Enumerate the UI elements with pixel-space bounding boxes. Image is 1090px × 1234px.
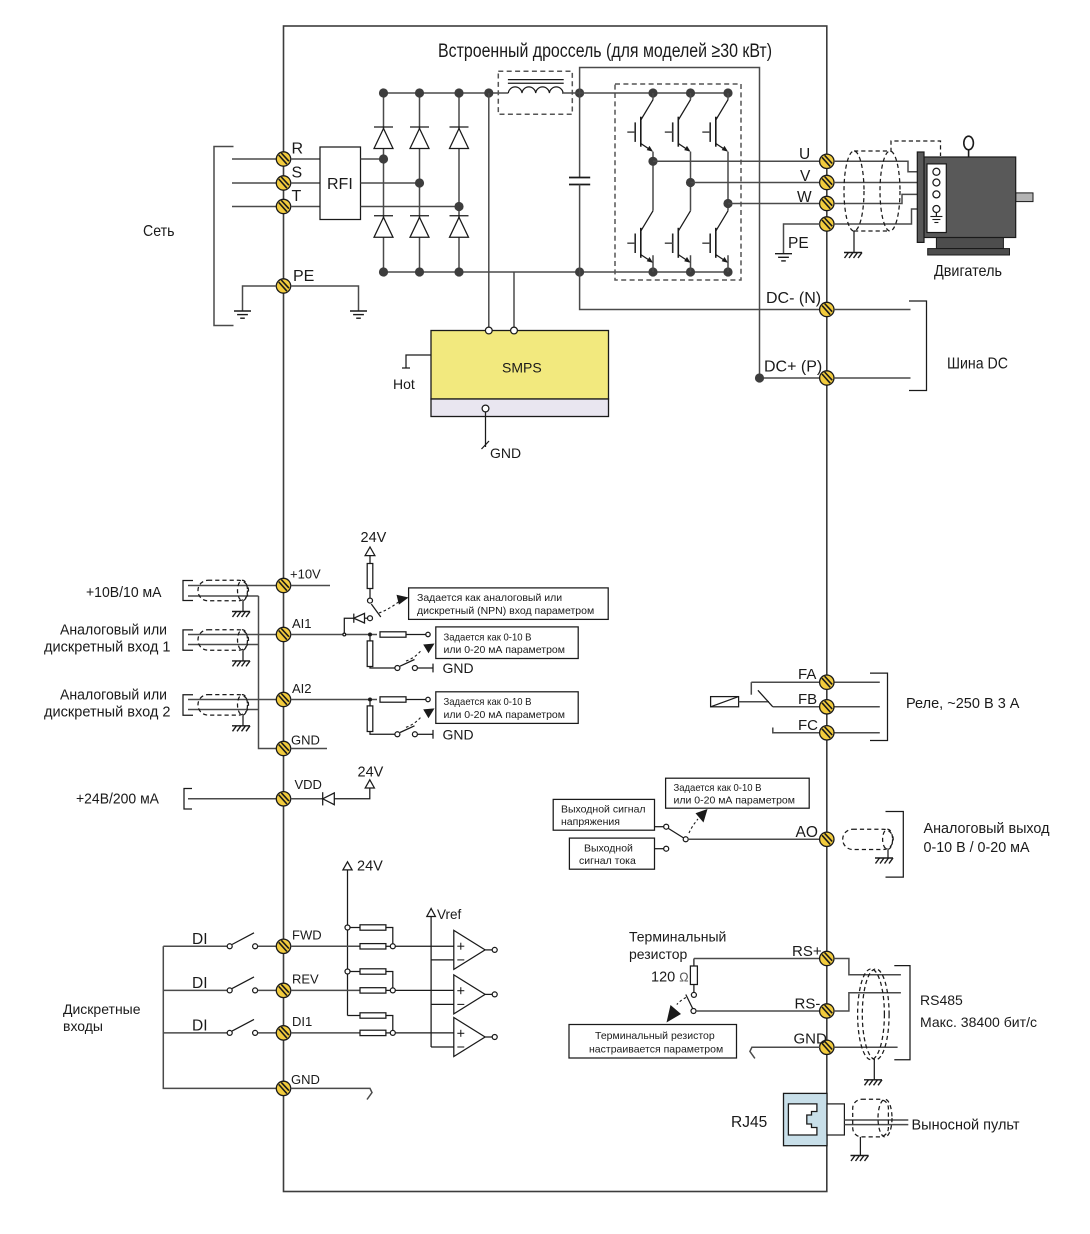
svg-text:FC: FC <box>798 717 818 734</box>
wire RS485 shield to ground <box>873 1060 875 1080</box>
ground (hatched) AI1 cable <box>232 661 250 667</box>
DI1 pull-up resistor <box>348 1013 393 1031</box>
Vref stubs to comparators <box>431 960 454 1047</box>
svg-text:Vref: Vref <box>437 907 462 922</box>
NPN diode branch <box>344 613 372 633</box>
wire current box to switch <box>655 846 669 851</box>
ground (earth) left of PE <box>234 311 251 318</box>
wire DC- stub right <box>834 309 911 311</box>
svg-text:дискретный вход 2: дискретный вход 2 <box>44 704 171 721</box>
svg-text:дискретный (NPN) вход параметр: дискретный (NPN) вход параметром <box>417 605 594 617</box>
svg-text:24V: 24V <box>361 530 387 546</box>
svg-text:Аналоговый выход: Аналоговый выход <box>924 820 1050 837</box>
AO switch arm <box>669 829 684 839</box>
terminal REV <box>276 983 290 997</box>
IGBT column 3 verticals <box>727 93 729 272</box>
switch terminating resistor <box>686 992 697 1013</box>
24V arrow at VDD <box>365 780 374 788</box>
RJ45 cable wires <box>844 1120 908 1125</box>
ground (hatched) RJ45 cable <box>851 1156 869 1162</box>
terminal DI1 <box>276 1026 290 1040</box>
arrow to note 1 <box>397 595 409 605</box>
rectifier column 3 <box>458 93 460 272</box>
ground (earth) PE output <box>775 254 792 261</box>
+10V shielded cable <box>198 580 249 601</box>
+10V cable wires <box>188 585 277 587</box>
svg-text:Задается как 0-10 В: Задается как 0-10 В <box>674 782 762 794</box>
terminal RS+ <box>820 951 834 965</box>
AI1 cable bracket <box>183 630 193 650</box>
wire diode to 24V arrow <box>334 788 370 799</box>
AI2 cable wires <box>188 699 277 701</box>
RJ45 connector <box>784 1093 828 1145</box>
box Выходной сигнал напряжения <box>553 799 654 830</box>
resistor AI2 shunt <box>367 702 394 735</box>
svg-text:RFI: RFI <box>327 176 353 193</box>
wire RFI to rectifier T phase <box>361 206 460 208</box>
wire R input <box>232 158 277 160</box>
switch NPN select <box>368 598 381 617</box>
junction circle FWD <box>390 944 395 949</box>
wire choke to DC+ node <box>562 92 580 94</box>
junction dot DC+ corner <box>755 373 764 382</box>
arrow to note 2 <box>423 644 434 654</box>
24V source at DI <box>343 859 383 1016</box>
svg-text:DI: DI <box>192 1018 208 1035</box>
diode D1 <box>374 127 393 149</box>
wire RS- into cable <box>834 993 901 1011</box>
AO switch common circle <box>683 837 688 842</box>
wire AO shield to ground <box>887 850 889 859</box>
svg-text:Выходной сигнал: Выходной сигнал <box>561 803 646 815</box>
terminal DC+ (P) <box>820 371 834 385</box>
diode D5 <box>410 216 429 238</box>
DI switch REV <box>163 975 277 993</box>
svg-text:R: R <box>292 141 304 158</box>
svg-text:Сеть: Сеть <box>143 223 175 240</box>
resistor AI1 shunt <box>367 637 394 669</box>
IGBT column 2 verticals <box>690 93 692 272</box>
wire AI1 row <box>291 634 378 636</box>
motor cable wire V <box>834 182 933 184</box>
svg-text:AI1: AI1 <box>292 616 312 631</box>
junction dot W node <box>723 199 732 208</box>
RS485 twisted cable <box>858 969 890 1060</box>
REV series resistor <box>291 988 391 993</box>
wire VDD input <box>188 798 277 800</box>
switch AI1 mode <box>395 660 433 673</box>
wire U phase <box>653 160 820 162</box>
junction circle REV <box>390 988 395 993</box>
dashed arc to note 4 <box>689 819 698 833</box>
wire to input circle AI2 <box>406 699 426 701</box>
terminal RS- <box>820 1004 834 1018</box>
motor cable wire W <box>834 194 933 203</box>
wire RS+ into cable <box>834 959 901 975</box>
svg-text:GND: GND <box>291 733 320 748</box>
junction dots top bus <box>379 88 584 97</box>
terminal VDD <box>276 792 290 806</box>
wire RJ45 shield to ground <box>859 1137 861 1156</box>
svg-text:GND: GND <box>291 1072 320 1087</box>
FWD series resistor <box>291 944 391 949</box>
diode D6 <box>450 216 469 238</box>
wire +10V stub <box>291 585 331 587</box>
terminal S <box>276 176 290 190</box>
svg-text:настраивается параметром: настраивается параметром <box>589 1044 723 1056</box>
svg-text:+10В/10 мА: +10В/10 мА <box>86 584 162 601</box>
terminal PE output <box>820 217 834 231</box>
wire FC <box>773 728 880 733</box>
transistor Q3 <box>702 100 728 152</box>
svg-text:RJ45: RJ45 <box>731 1114 767 1131</box>
ground (hatched) AO cable <box>875 858 893 864</box>
svg-text:Выходной: Выходной <box>584 843 633 855</box>
svg-text:Задается как 0-10 В: Задается как 0-10 В <box>444 696 532 708</box>
wire SMPS from DC- bus <box>513 272 515 327</box>
terminating resistor 120 <box>690 959 697 993</box>
svg-text:FB: FB <box>798 691 817 708</box>
note box 5 <box>569 1025 737 1059</box>
node small AI1 branch <box>343 633 346 636</box>
svg-text:Терминальный резистор: Терминальный резистор <box>595 1030 715 1042</box>
motor cable shield cylinder <box>844 151 900 231</box>
svg-text:Макс. 38400 бит/с: Макс. 38400 бит/с <box>920 1014 1037 1030</box>
dashed arc to note 3 <box>406 716 422 727</box>
input circle AI1 <box>426 632 430 636</box>
terminal AO <box>820 832 834 846</box>
terminal GND analog <box>276 741 290 755</box>
AI2 cable bracket <box>183 695 193 715</box>
junction dot U node <box>648 157 657 166</box>
svg-text:сигнал тока: сигнал тока <box>579 855 636 867</box>
wire PE to left ground <box>243 286 277 311</box>
capacitor C1 <box>569 93 590 272</box>
AO bracket <box>886 812 904 878</box>
svg-text:REV: REV <box>292 972 319 987</box>
choke dashed box <box>498 71 572 114</box>
ground (hatched) RS485 cable <box>864 1080 882 1086</box>
wire V phase <box>691 182 821 184</box>
+10V cable bracket <box>183 581 193 601</box>
relay coil K1 <box>711 697 769 707</box>
choke L1 <box>508 80 564 93</box>
svg-text:+24В/200 мА: +24В/200 мА <box>76 791 159 808</box>
junction dot AI1 divider <box>368 633 372 637</box>
terminal V <box>820 175 834 189</box>
output circle U4 <box>485 1035 497 1040</box>
resistor AI2 series <box>380 697 406 702</box>
svg-text:SMPS: SMPS <box>502 360 542 376</box>
svg-text:0-10 В / 0-20 мА: 0-10 В / 0-20 мА <box>924 839 1030 856</box>
AI1 cable wires <box>188 634 277 636</box>
wire to input circle <box>406 634 426 636</box>
junction dots phase mid <box>379 154 464 211</box>
DI switch DI1 <box>163 1018 277 1036</box>
wire PE output to ground <box>784 224 821 254</box>
svg-text:DI1: DI1 <box>292 1014 312 1029</box>
wire REV to comparator <box>395 989 454 991</box>
pull-up taps on 24V rail <box>345 925 350 974</box>
VDD bracket <box>184 789 192 810</box>
terminal R <box>276 152 290 166</box>
wire GND stub <box>291 748 328 750</box>
wire S input <box>232 182 277 184</box>
ground (hatched) AI2 cable <box>232 726 250 732</box>
svg-text:DI: DI <box>192 931 208 948</box>
wire GND comm with hook <box>750 1047 820 1058</box>
svg-text:24V: 24V <box>357 859 383 875</box>
transistor Q5 <box>665 211 691 263</box>
terminal GND comm <box>820 1040 834 1054</box>
op-amp U2 <box>454 930 485 969</box>
svg-text:или 0-20 мА параметром: или 0-20 мА параметром <box>444 709 565 721</box>
dashed arc to note 1 <box>379 600 401 613</box>
junction dot AI2 divider <box>368 698 372 702</box>
wire VDD to diode <box>291 798 323 800</box>
terminal FB <box>820 700 834 714</box>
terminal FA <box>820 675 834 689</box>
wire PE to internal ground <box>291 286 359 311</box>
terminal AI2 <box>276 692 290 706</box>
motor (Двигатель) <box>917 136 1033 255</box>
svg-text:напряжения: напряжения <box>561 816 620 828</box>
output circle U2 <box>485 947 497 952</box>
wire DI1 to comparator <box>395 1032 454 1034</box>
transistor Q6 <box>702 211 728 263</box>
wire RFI to rectifier R phase <box>361 158 384 160</box>
wire RS+ row <box>694 958 820 960</box>
relay bracket <box>870 673 888 740</box>
wire shield to ground <box>853 231 855 253</box>
resistor AI1 series <box>380 632 406 637</box>
svg-text:RS485: RS485 <box>920 992 963 1008</box>
Vref source <box>427 907 462 1047</box>
relay contact arm <box>751 682 773 707</box>
op-amp U3 <box>454 975 485 1014</box>
wire GND into cable <box>834 1046 898 1048</box>
svg-text:Задается как 0-10 В: Задается как 0-10 В <box>444 631 532 643</box>
svg-text:Аналоговый или: Аналоговый или <box>60 622 167 639</box>
ground (hatched) motor cable <box>844 253 862 259</box>
svg-text:RS+: RS+ <box>792 943 822 960</box>
note box 4 AO <box>666 778 810 808</box>
svg-text:+10V: +10V <box>290 567 321 582</box>
junction dots IGBT top bus <box>648 88 732 97</box>
svg-text:GND: GND <box>490 445 521 461</box>
svg-text:Аналоговый или: Аналоговый или <box>60 687 167 704</box>
arrow to note 3 <box>423 708 434 718</box>
DI1 series resistor <box>291 1030 391 1035</box>
wire FA <box>751 681 880 683</box>
wire DC+ jog over IGBT bridge <box>580 68 820 379</box>
IGBT bridge dashed box <box>615 84 741 280</box>
transistor Q4 <box>627 211 653 263</box>
terminal +10V <box>276 578 290 592</box>
dashed line to note 5 <box>677 998 686 1005</box>
svg-text:24V: 24V <box>358 764 384 780</box>
RJ45 shielded cable <box>853 1099 892 1137</box>
svg-text:Двигатель: Двигатель <box>934 263 1002 280</box>
IGBT column 1 verticals <box>652 93 654 272</box>
wire AI1 shield to ground <box>242 650 244 661</box>
transistor Q2 <box>665 100 691 152</box>
svg-text:DC- (N): DC- (N) <box>766 290 821 307</box>
svg-text:T: T <box>292 188 302 205</box>
diode D2 <box>410 127 429 149</box>
wire voltage box to switch <box>655 824 669 829</box>
motor cable wire PE <box>834 209 933 224</box>
AI1 shielded cable <box>198 630 249 651</box>
svg-text:Терминальный: Терминальный <box>629 929 726 945</box>
input circle AI2 <box>426 697 430 701</box>
diode D4 <box>374 216 393 238</box>
svg-text:Задается как аналоговый или: Задается как аналоговый или <box>417 592 562 604</box>
DC bus bracket <box>909 301 927 391</box>
dashed shield link to motor <box>891 141 941 156</box>
terminal FWD <box>276 939 290 953</box>
svg-text:или 0-20 мА параметром: или 0-20 мА параметром <box>674 795 795 807</box>
RS485 bracket <box>894 966 910 1060</box>
dashed arc to note 2 <box>406 650 422 661</box>
AO shielded cable <box>843 829 894 849</box>
motor cable wire U <box>834 161 933 172</box>
junction dot V node <box>686 178 695 187</box>
note box 1 <box>409 588 609 620</box>
REV pull-up resistor <box>350 969 393 988</box>
wire T input <box>232 206 277 208</box>
svg-text:120 Ω: 120 Ω <box>651 970 689 986</box>
ground (earth) internal PE <box>350 311 367 318</box>
op-amp U4 <box>454 1018 485 1057</box>
junction dots bottom bus <box>379 267 733 276</box>
diode D3 <box>450 127 469 149</box>
wire +10V shield to ground <box>242 601 244 612</box>
DC- bottom bus <box>384 271 729 273</box>
terminal GND digital <box>276 1081 290 1095</box>
svg-text:PE: PE <box>293 268 314 285</box>
DC+ top bus <box>384 92 509 94</box>
ground (hatched) +10V cable <box>232 612 250 618</box>
svg-text:входы: входы <box>63 1018 103 1034</box>
AI2 shielded cable <box>198 695 249 716</box>
svg-text:PE: PE <box>788 235 809 252</box>
terminal U <box>820 154 834 168</box>
terminal DC- (N) <box>820 302 834 316</box>
svg-text:Выносной пульт: Выносной пульт <box>912 1117 1020 1134</box>
RJ45 plug tab <box>827 1104 844 1135</box>
transistor Q1 <box>627 100 653 152</box>
wire AI2 row <box>291 699 378 701</box>
svg-text:Встроенный дроссель (для модел: Встроенный дроссель (для моделей ≥30 кВт… <box>438 40 772 62</box>
svg-text:GND: GND <box>794 1031 828 1048</box>
wire FB <box>773 706 880 708</box>
wire DC- to terminal <box>580 272 820 310</box>
output circle U3 <box>485 992 497 997</box>
DI switch FWD <box>163 931 277 949</box>
note box 2 <box>436 627 578 659</box>
wire RS- row <box>696 1010 820 1012</box>
svg-text:W: W <box>797 189 812 206</box>
wire SMPS from DC+ bus <box>488 93 490 327</box>
svg-text:Реле, ~250 В 3 А: Реле, ~250 В 3 А <box>906 695 1020 712</box>
svg-text:GND: GND <box>443 726 474 742</box>
switch AI2 mode <box>395 726 433 739</box>
terminal W <box>820 196 834 210</box>
note box 3 <box>436 692 578 724</box>
svg-text:Hot: Hot <box>393 376 415 392</box>
svg-text:резистор: резистор <box>629 946 688 962</box>
arrow to note 4 <box>696 809 708 823</box>
shield return line to GND <box>259 596 278 749</box>
svg-text:AO: AO <box>796 824 818 841</box>
diode VDD <box>323 792 335 805</box>
svg-text:V: V <box>800 168 811 185</box>
terminal FC <box>820 726 834 740</box>
mains bracket (Сеть) <box>214 147 234 326</box>
RFI filter block U1 <box>291 147 361 220</box>
junction circle DI1 <box>390 1030 395 1035</box>
wire FWD to comparator <box>395 945 454 947</box>
svg-text:DC+ (P): DC+ (P) <box>764 359 822 376</box>
svg-text:VDD: VDD <box>295 777 322 792</box>
wire W phase <box>728 203 820 205</box>
wire GND digital stub with hook <box>291 1088 373 1099</box>
SMPS GND pin <box>482 405 522 461</box>
24V source at AI1 <box>361 530 387 564</box>
svg-text:FA: FA <box>798 666 816 683</box>
svg-text:AI2: AI2 <box>292 681 312 696</box>
svg-text:Шина DC: Шина DC <box>947 356 1008 373</box>
svg-text:S: S <box>292 165 303 182</box>
svg-text:DI: DI <box>192 975 208 992</box>
svg-text:Дискретные: Дискретные <box>63 1001 141 1017</box>
resistor pull-up 24V <box>367 564 373 599</box>
svg-text:RS-: RS- <box>795 996 821 1013</box>
terminal AI1 <box>276 627 290 641</box>
svg-text:FWD: FWD <box>292 928 322 943</box>
IGBT top bus inside bridge <box>580 92 728 94</box>
wire RFI to rectifier S phase <box>361 182 420 184</box>
rectifier column 1 <box>383 93 385 272</box>
svg-text:U: U <box>799 146 810 163</box>
wire AI2 shield to ground <box>242 715 244 726</box>
svg-text:дискретный вход 1: дискретный вход 1 <box>44 639 171 656</box>
svg-text:GND: GND <box>443 660 474 676</box>
FWD pull-up resistor <box>350 925 393 944</box>
box Выходной сигнал тока <box>569 838 654 869</box>
wire AO row <box>688 838 820 840</box>
terminal T <box>276 199 290 213</box>
wire DC+ stub right <box>834 377 911 379</box>
inverter enclosure <box>284 26 827 1192</box>
rectifier column 2 <box>419 93 421 272</box>
arrow to note 5 <box>667 1005 682 1023</box>
SMPS block <box>431 327 609 416</box>
terminal PE left <box>276 279 290 293</box>
Hot stub <box>393 355 431 392</box>
DI common rail <box>163 946 277 1088</box>
svg-text:или 0-20 мА параметром: или 0-20 мА параметром <box>444 644 565 656</box>
